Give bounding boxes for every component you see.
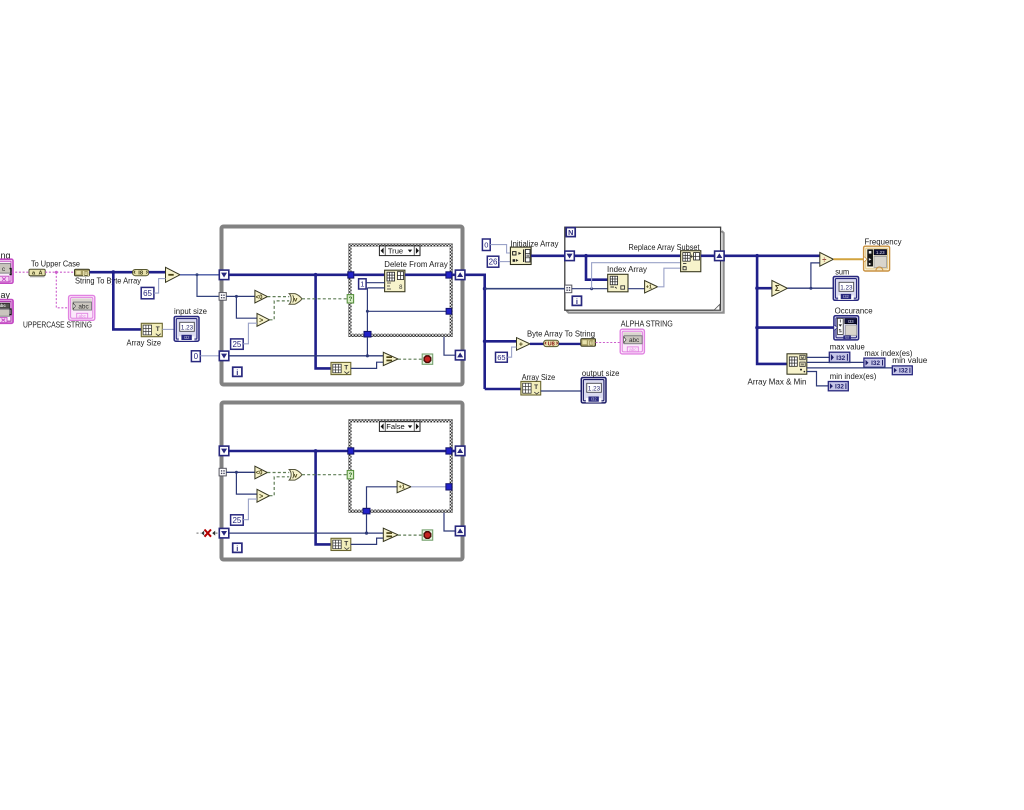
min index chip I32 bbox=[828, 382, 848, 391]
svg-text:abc: abc bbox=[0, 303, 6, 308]
wire Array Size to equals bbox=[351, 362, 384, 368]
wire tunnel to comparisons bbox=[226, 295, 255, 297]
svg-text:<0: <0 bbox=[256, 471, 264, 477]
wire increment to case 2 right tunnel bbox=[411, 486, 446, 488]
svg-text:I33: I33 bbox=[848, 319, 854, 324]
for loop resize corner bbox=[714, 304, 720, 310]
wire index to delete node bbox=[367, 287, 384, 289]
svg-text:output size: output size bbox=[582, 368, 620, 378]
wire add to U8 conversion bbox=[530, 343, 544, 345]
greater-than node bbox=[257, 313, 270, 326]
svg-text:min value: min value bbox=[892, 355, 927, 365]
svg-text:False: False bbox=[386, 422, 405, 431]
for loop main array wire bbox=[574, 255, 680, 258]
Frequency indicator bbox=[864, 246, 890, 271]
wire 25 to greater-than loop 2 bbox=[243, 499, 257, 520]
wire or to case selector loop 2 (boolean dashed) bbox=[302, 474, 347, 476]
wire byte array down to Array Size bbox=[113, 272, 141, 329]
wire case 2 index up to increment bbox=[367, 487, 398, 512]
wire equals to stop (boolean dashed) bbox=[398, 358, 422, 360]
wire array to for loop tunnel bbox=[485, 288, 565, 290]
svg-text:I32: I32 bbox=[871, 360, 880, 367]
wire index vertical through case 1 bbox=[366, 288, 368, 334]
wire case 2 outside right down bbox=[444, 513, 455, 531]
wire below case 1 to bottom junction bbox=[366, 337, 368, 356]
svg-text:String To Byte Array: String To Byte Array bbox=[75, 276, 142, 286]
wire increment to Replace Array Subset bbox=[658, 268, 681, 287]
increment node case 2 bbox=[397, 481, 411, 493]
wire max index bbox=[807, 361, 864, 363]
svg-text:<0: <0 bbox=[256, 295, 264, 301]
wire loop 1 index line to equals bbox=[229, 355, 383, 357]
loop 1 conditional stop terminal bbox=[422, 354, 433, 364]
svg-text:U8: U8 bbox=[548, 342, 555, 348]
svg-text:v: v bbox=[294, 297, 298, 304]
svg-text:>: > bbox=[259, 317, 263, 324]
junction index to case tunnel bbox=[366, 310, 369, 313]
UPPERCASE STRING indicator bbox=[69, 295, 95, 320]
svg-text:1.23: 1.23 bbox=[588, 385, 601, 392]
wire to add array elements bbox=[757, 287, 772, 290]
case 1 right tunnel bbox=[446, 308, 452, 314]
for loop left index tunnel bbox=[565, 285, 572, 293]
svg-text:max value: max value bbox=[830, 341, 865, 351]
wire down to greater-than loop 2 bbox=[236, 472, 257, 494]
svg-text:T: T bbox=[344, 365, 348, 372]
Delete From Array node bbox=[385, 270, 405, 292]
wire 65 to add bbox=[507, 347, 516, 357]
wire sum output bbox=[787, 287, 833, 289]
wire greater-than to or (boolean dashed) bbox=[270, 301, 290, 320]
svg-text:Array Size: Array Size bbox=[127, 337, 162, 347]
loop 2 left shift register bottom bbox=[219, 528, 229, 538]
wire case 1 array in bbox=[354, 273, 385, 276]
less-than-0 node loop 2 bbox=[255, 466, 268, 479]
loop 1 left shift register bottom bbox=[219, 351, 229, 361]
svg-text:65: 65 bbox=[143, 289, 152, 298]
loop 1 left shift register top bbox=[219, 270, 229, 280]
junction comparison split loop 2 bbox=[235, 471, 238, 474]
svg-text:I8: I8 bbox=[138, 271, 144, 277]
svg-text:65: 65 bbox=[497, 353, 505, 362]
svg-text:i: i bbox=[576, 297, 578, 306]
wire or to case selector (boolean dashed) bbox=[302, 298, 347, 300]
junction sum branch bbox=[755, 286, 759, 290]
add node bbox=[517, 338, 531, 351]
wire array down to Array Size bottom loop 2 bbox=[316, 451, 331, 544]
increment node for loop bbox=[645, 281, 658, 293]
ALPHA STRING indicator bbox=[620, 329, 644, 354]
svg-text:Array Size: Array Size bbox=[522, 372, 556, 382]
case 2 selector label bbox=[379, 422, 420, 432]
svg-text:Frequency: Frequency bbox=[865, 236, 903, 246]
svg-text:Σ: Σ bbox=[775, 284, 780, 293]
svg-text:Byte Array To String: Byte Array To String bbox=[527, 328, 595, 338]
wire down to greater-than bbox=[236, 296, 257, 318]
greater-than node loop 2 bbox=[257, 489, 270, 502]
svg-text:I32: I32 bbox=[836, 355, 845, 362]
svg-text:input size: input size bbox=[174, 306, 207, 316]
wire array to add node bbox=[485, 340, 517, 343]
svg-text:i: i bbox=[236, 544, 238, 553]
svg-text:[u]: [u] bbox=[588, 341, 595, 347]
junction index at case drop loop 2 bbox=[365, 532, 368, 535]
svg-text:T: T bbox=[534, 384, 538, 391]
svg-text:0: 0 bbox=[484, 240, 488, 249]
wire loop 2 index line to equals bbox=[229, 532, 383, 534]
svg-text:>: > bbox=[259, 493, 263, 500]
while loop 1 border bbox=[222, 227, 463, 385]
while loop 2 border bbox=[222, 403, 463, 560]
svg-text:T: T bbox=[344, 540, 348, 547]
divide node bbox=[820, 252, 834, 266]
wire array down to Array Size bottom bbox=[316, 275, 331, 369]
junction to add node bbox=[483, 339, 487, 343]
String To Byte Array node bbox=[75, 269, 90, 276]
wire String To Byte Array output (byte array, thick blue) bbox=[90, 271, 133, 274]
svg-text:+1: +1 bbox=[399, 485, 405, 491]
junction comparison split bbox=[235, 295, 238, 298]
svg-text:min index(es): min index(es) bbox=[830, 371, 877, 381]
svg-text:Index Array: Index Array bbox=[607, 264, 648, 274]
loop 2 right shift register top bbox=[455, 446, 465, 456]
svg-text:abc: abc bbox=[629, 347, 637, 352]
wire to loop 1 right shift register bbox=[452, 273, 456, 276]
svg-text:UPPERCASE STRING: UPPERCASE STRING bbox=[23, 319, 92, 329]
numeric constant 26 bbox=[487, 256, 499, 267]
junction loop 2 array split bbox=[314, 449, 318, 453]
Replace Array Subset node bbox=[681, 251, 701, 272]
wire case 1 array out bbox=[405, 273, 446, 276]
wire min index bbox=[807, 372, 829, 386]
max index chip I32 bbox=[864, 358, 885, 367]
sum indicator bbox=[833, 277, 858, 301]
svg-text:v: v bbox=[294, 472, 298, 479]
numeric constant 25 loop 2 bbox=[231, 515, 244, 525]
svg-text:abc: abc bbox=[78, 303, 89, 310]
wire loop 1 array output down bbox=[465, 275, 485, 389]
or node loop 2 bbox=[289, 470, 302, 481]
Array Max and Min node bbox=[787, 354, 807, 374]
for loop right shift register bbox=[715, 251, 725, 261]
wire max value bbox=[807, 356, 830, 358]
for loop left shift register bbox=[565, 251, 575, 261]
svg-text:÷: ÷ bbox=[822, 255, 826, 264]
less-than-0 node bbox=[255, 290, 268, 303]
wire greater-than to or loop 2 (boolean dashed) bbox=[270, 477, 290, 496]
case structure 2 border (checkered) bbox=[349, 420, 453, 513]
wire array down to Index Array bbox=[586, 256, 608, 280]
Occurance indicator bbox=[834, 316, 859, 340]
Array Size node 3 bbox=[521, 381, 541, 395]
junction index branch bbox=[590, 287, 593, 290]
Index Array node bbox=[608, 274, 628, 292]
svg-text:abc: abc bbox=[629, 337, 640, 344]
svg-text:26: 26 bbox=[489, 258, 498, 267]
wire 0 to loop 1 shift register bbox=[200, 355, 219, 357]
wire 26 to Initialize Array bbox=[499, 261, 511, 263]
wire To Upper Case to String To Byte Array (pink dashed) bbox=[45, 271, 74, 273]
wire for loop output to divide bbox=[724, 255, 820, 258]
array control (partial at left edge) bbox=[0, 300, 13, 324]
wire case 1 outside right down bbox=[444, 337, 455, 355]
wire sum up to divide bbox=[811, 263, 820, 288]
numeric constant 65 byte offset bbox=[496, 352, 508, 362]
svg-text:i: i bbox=[236, 368, 238, 377]
case 1 selector label bbox=[379, 246, 420, 256]
min value chip I32 bbox=[892, 366, 912, 375]
wire less-than-0 to or loop 2 (boolean dashed) bbox=[267, 472, 289, 474]
wire less-than-0 to or (boolean dashed) bbox=[267, 296, 289, 298]
wire Array Size to equals loop 2 bbox=[351, 538, 384, 544]
svg-text:I32: I32 bbox=[591, 397, 597, 402]
equals node loop 2 bbox=[383, 528, 398, 541]
case 1 bottom tunnel bbox=[364, 331, 371, 337]
svg-text:T: T bbox=[156, 326, 160, 333]
wire 25 to greater-than bbox=[243, 323, 257, 344]
wire I8 to subtract bbox=[149, 271, 166, 274]
svg-text:?: ? bbox=[349, 473, 353, 479]
svg-text:abc: abc bbox=[78, 313, 86, 318]
wire index up to Replace Array Subset bbox=[592, 263, 681, 289]
junction index at case drop bbox=[366, 354, 369, 357]
wire to Occurance bbox=[757, 326, 834, 329]
svg-text:25: 25 bbox=[232, 340, 241, 349]
case 2 right array tunnel bbox=[446, 448, 452, 454]
input size indicator bbox=[174, 317, 199, 342]
numeric constant 0 bbox=[191, 351, 200, 362]
wire index to case 1 right tunnel bbox=[367, 310, 446, 312]
loop 1 main array wire bbox=[229, 273, 348, 276]
svg-text:I: I bbox=[840, 318, 841, 323]
junction results split bbox=[755, 254, 759, 258]
wire Array Size to output size bbox=[541, 390, 582, 392]
numeric constant 25 loop 1 bbox=[231, 339, 244, 349]
equals node loop 1 bbox=[383, 352, 398, 365]
svg-text:True: True bbox=[388, 246, 403, 255]
wire below case 2 to bottom junction bbox=[366, 514, 368, 533]
max value chip I32 bbox=[829, 352, 850, 362]
Initialize Array node bbox=[510, 247, 531, 264]
case 1 right array tunnel bbox=[446, 272, 452, 278]
junction for loop array bbox=[584, 254, 588, 258]
Array Size node bottom loop 2 bbox=[331, 538, 351, 550]
wire branch to UPPERCASE STRING (pink dashed) bbox=[56, 272, 68, 308]
svg-text:sum: sum bbox=[835, 266, 849, 276]
junction occurance branch bbox=[755, 326, 759, 330]
wire Replace Array Subset to right shift register bbox=[701, 255, 715, 258]
svg-text:1.23: 1.23 bbox=[181, 324, 194, 331]
junction sum to divide bbox=[809, 287, 812, 290]
case structure 1 border (checkered) bbox=[349, 244, 453, 337]
junction to for loop tunnel bbox=[483, 287, 487, 291]
svg-text:Delete From Array: Delete From Array bbox=[384, 259, 448, 269]
wire Initialize Array to for loop bbox=[531, 255, 565, 258]
Array Size node 1 bbox=[141, 323, 162, 336]
junction byte array split bbox=[111, 270, 115, 274]
for loop iteration terminal i bbox=[572, 296, 581, 305]
wire array to Array Size 3 bbox=[485, 388, 521, 391]
wire Byte Array To String to ALPHA STRING (pink dashed) bbox=[596, 342, 621, 344]
svg-text:1: 1 bbox=[360, 280, 364, 289]
wire min value bbox=[807, 367, 893, 369]
case structure 1 selector tunnel bbox=[347, 295, 353, 303]
loop 2 conditional stop terminal bbox=[422, 530, 433, 540]
svg-text:ALPHA STRING: ALPHA STRING bbox=[621, 318, 673, 328]
svg-text:1.23: 1.23 bbox=[876, 250, 885, 255]
loop 2 right shift register bottom bbox=[455, 526, 465, 536]
case 2 right tunnel mid bbox=[446, 484, 452, 490]
wire tunnel to Index Array bbox=[572, 288, 608, 290]
numeric constant 65 bbox=[141, 287, 154, 298]
wire results vertical bbox=[757, 256, 787, 364]
wire to loop 2 right shift register bbox=[452, 450, 456, 453]
svg-text:?: ? bbox=[349, 297, 353, 303]
wire divide to Frequency (orange DBL) bbox=[833, 258, 863, 260]
junction loop 1 array split bbox=[314, 273, 318, 277]
svg-text:25: 25 bbox=[232, 516, 241, 525]
svg-text:I32: I32 bbox=[843, 294, 849, 299]
string control STRING (partial at left edge) bbox=[0, 259, 13, 283]
svg-text:I32: I32 bbox=[899, 368, 908, 375]
numeric constant 0 initialize bbox=[482, 239, 490, 251]
or node loop 1 bbox=[289, 294, 302, 305]
svg-text:I32: I32 bbox=[184, 335, 190, 340]
Array Size node bottom loop 1 bbox=[331, 362, 351, 374]
wire case 2 array through bbox=[354, 450, 446, 453]
wire U8 to Byte Array To String bbox=[559, 343, 581, 345]
svg-text:1.23: 1.23 bbox=[840, 284, 853, 291]
svg-text:Occurance: Occurance bbox=[835, 305, 873, 315]
loop 2 main array wire bbox=[229, 450, 348, 453]
loop 1 left auto-index tunnel bbox=[219, 293, 226, 301]
svg-text:N: N bbox=[568, 228, 573, 237]
wire equals to stop loop 2 (boolean dashed) bbox=[398, 534, 422, 536]
U8 conversion node bbox=[544, 340, 559, 346]
loop 2 iteration terminal i bbox=[233, 543, 242, 552]
case 2 bottom tunnel bbox=[363, 508, 370, 514]
output size indicator bbox=[581, 378, 606, 403]
case 2 left tunnel bbox=[348, 448, 354, 454]
loop 1 right shift register top bbox=[455, 270, 465, 280]
wire Array Size to input size bbox=[162, 328, 174, 330]
loop 1 right shift register bottom bbox=[455, 350, 465, 360]
svg-text:0: 0 bbox=[194, 352, 199, 361]
svg-text:A: A bbox=[38, 271, 42, 277]
loop 2 left auto-index tunnel bbox=[219, 468, 226, 476]
for loop shadow bbox=[567, 231, 724, 313]
svg-text:To Upper Case: To Upper Case bbox=[31, 258, 80, 268]
I8 conversion node bbox=[133, 270, 149, 276]
svg-text:⇅: ⇅ bbox=[838, 329, 842, 334]
broken wire marker bbox=[197, 532, 201, 534]
svg-text:I32: I32 bbox=[835, 384, 844, 391]
wire string control to To Upper Case (pink dashed) bbox=[12, 271, 30, 273]
wire Index Array to increment bbox=[628, 288, 645, 290]
svg-text:I32: I32 bbox=[845, 336, 850, 340]
subtract node bbox=[166, 267, 181, 282]
junction subtract output bbox=[196, 273, 199, 276]
case structure 2 selector tunnel bbox=[347, 471, 353, 479]
svg-text:M: M bbox=[801, 356, 804, 360]
add array elements node bbox=[772, 280, 788, 296]
wire tunnel to comparisons loop 2 bbox=[226, 471, 255, 473]
wire branch down to loop 1 tunnel bbox=[197, 275, 220, 297]
svg-text:Array Max & Min: Array Max & Min bbox=[748, 376, 807, 386]
svg-text:+1: +1 bbox=[646, 285, 652, 291]
case 1 left tunnel bbox=[348, 272, 354, 278]
numeric constant 1 bbox=[359, 279, 367, 289]
svg-text:+: + bbox=[519, 341, 523, 348]
wire 0 to Initialize Array bbox=[490, 245, 510, 253]
loop 2 left shift register top bbox=[219, 446, 229, 456]
wire 1 to delete node bbox=[366, 282, 385, 284]
wire subtract output to loop 1 shift register bbox=[180, 274, 220, 276]
loop 1 iteration terminal i bbox=[233, 367, 242, 376]
To Upper Case node U-case bbox=[30, 276, 45, 277]
Byte Array To String node bbox=[581, 339, 596, 347]
wire 65 to subtract bbox=[154, 279, 166, 294]
for loop border bbox=[565, 227, 721, 310]
for loop count terminal N bbox=[566, 228, 575, 237]
